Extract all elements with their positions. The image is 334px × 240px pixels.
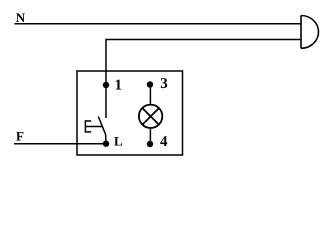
wire F horizontal <box>14 143 106 145</box>
switch manual actuator <box>85 120 102 133</box>
svg-text:3: 3 <box>160 76 168 92</box>
wire vertical from elbow to terminal 1 <box>105 39 107 118</box>
svg-text:1: 1 <box>115 78 123 94</box>
node N <box>16 10 26 25</box>
node F <box>16 129 24 144</box>
lamp holder E1 (socket symbol) <box>301 16 319 49</box>
switch box outline <box>77 71 183 155</box>
terminal 3 <box>147 81 153 87</box>
svg-text:N: N <box>16 10 26 25</box>
wire return horizontal to lamp <box>106 39 301 41</box>
wire N horizontal <box>15 23 302 25</box>
svg-text:F: F <box>16 129 24 144</box>
terminal 1 <box>103 82 109 88</box>
switch Q1 lever <box>98 117 106 144</box>
wire terminal 3 to lamp <box>149 85 151 105</box>
indicator lamp X1 (circle with X) <box>139 105 162 128</box>
terminal L <box>103 141 109 147</box>
svg-text:4: 4 <box>160 134 168 150</box>
svg-text:L: L <box>114 134 123 149</box>
wire lamp to terminal 4 <box>149 129 151 144</box>
terminal 4 <box>147 141 153 147</box>
